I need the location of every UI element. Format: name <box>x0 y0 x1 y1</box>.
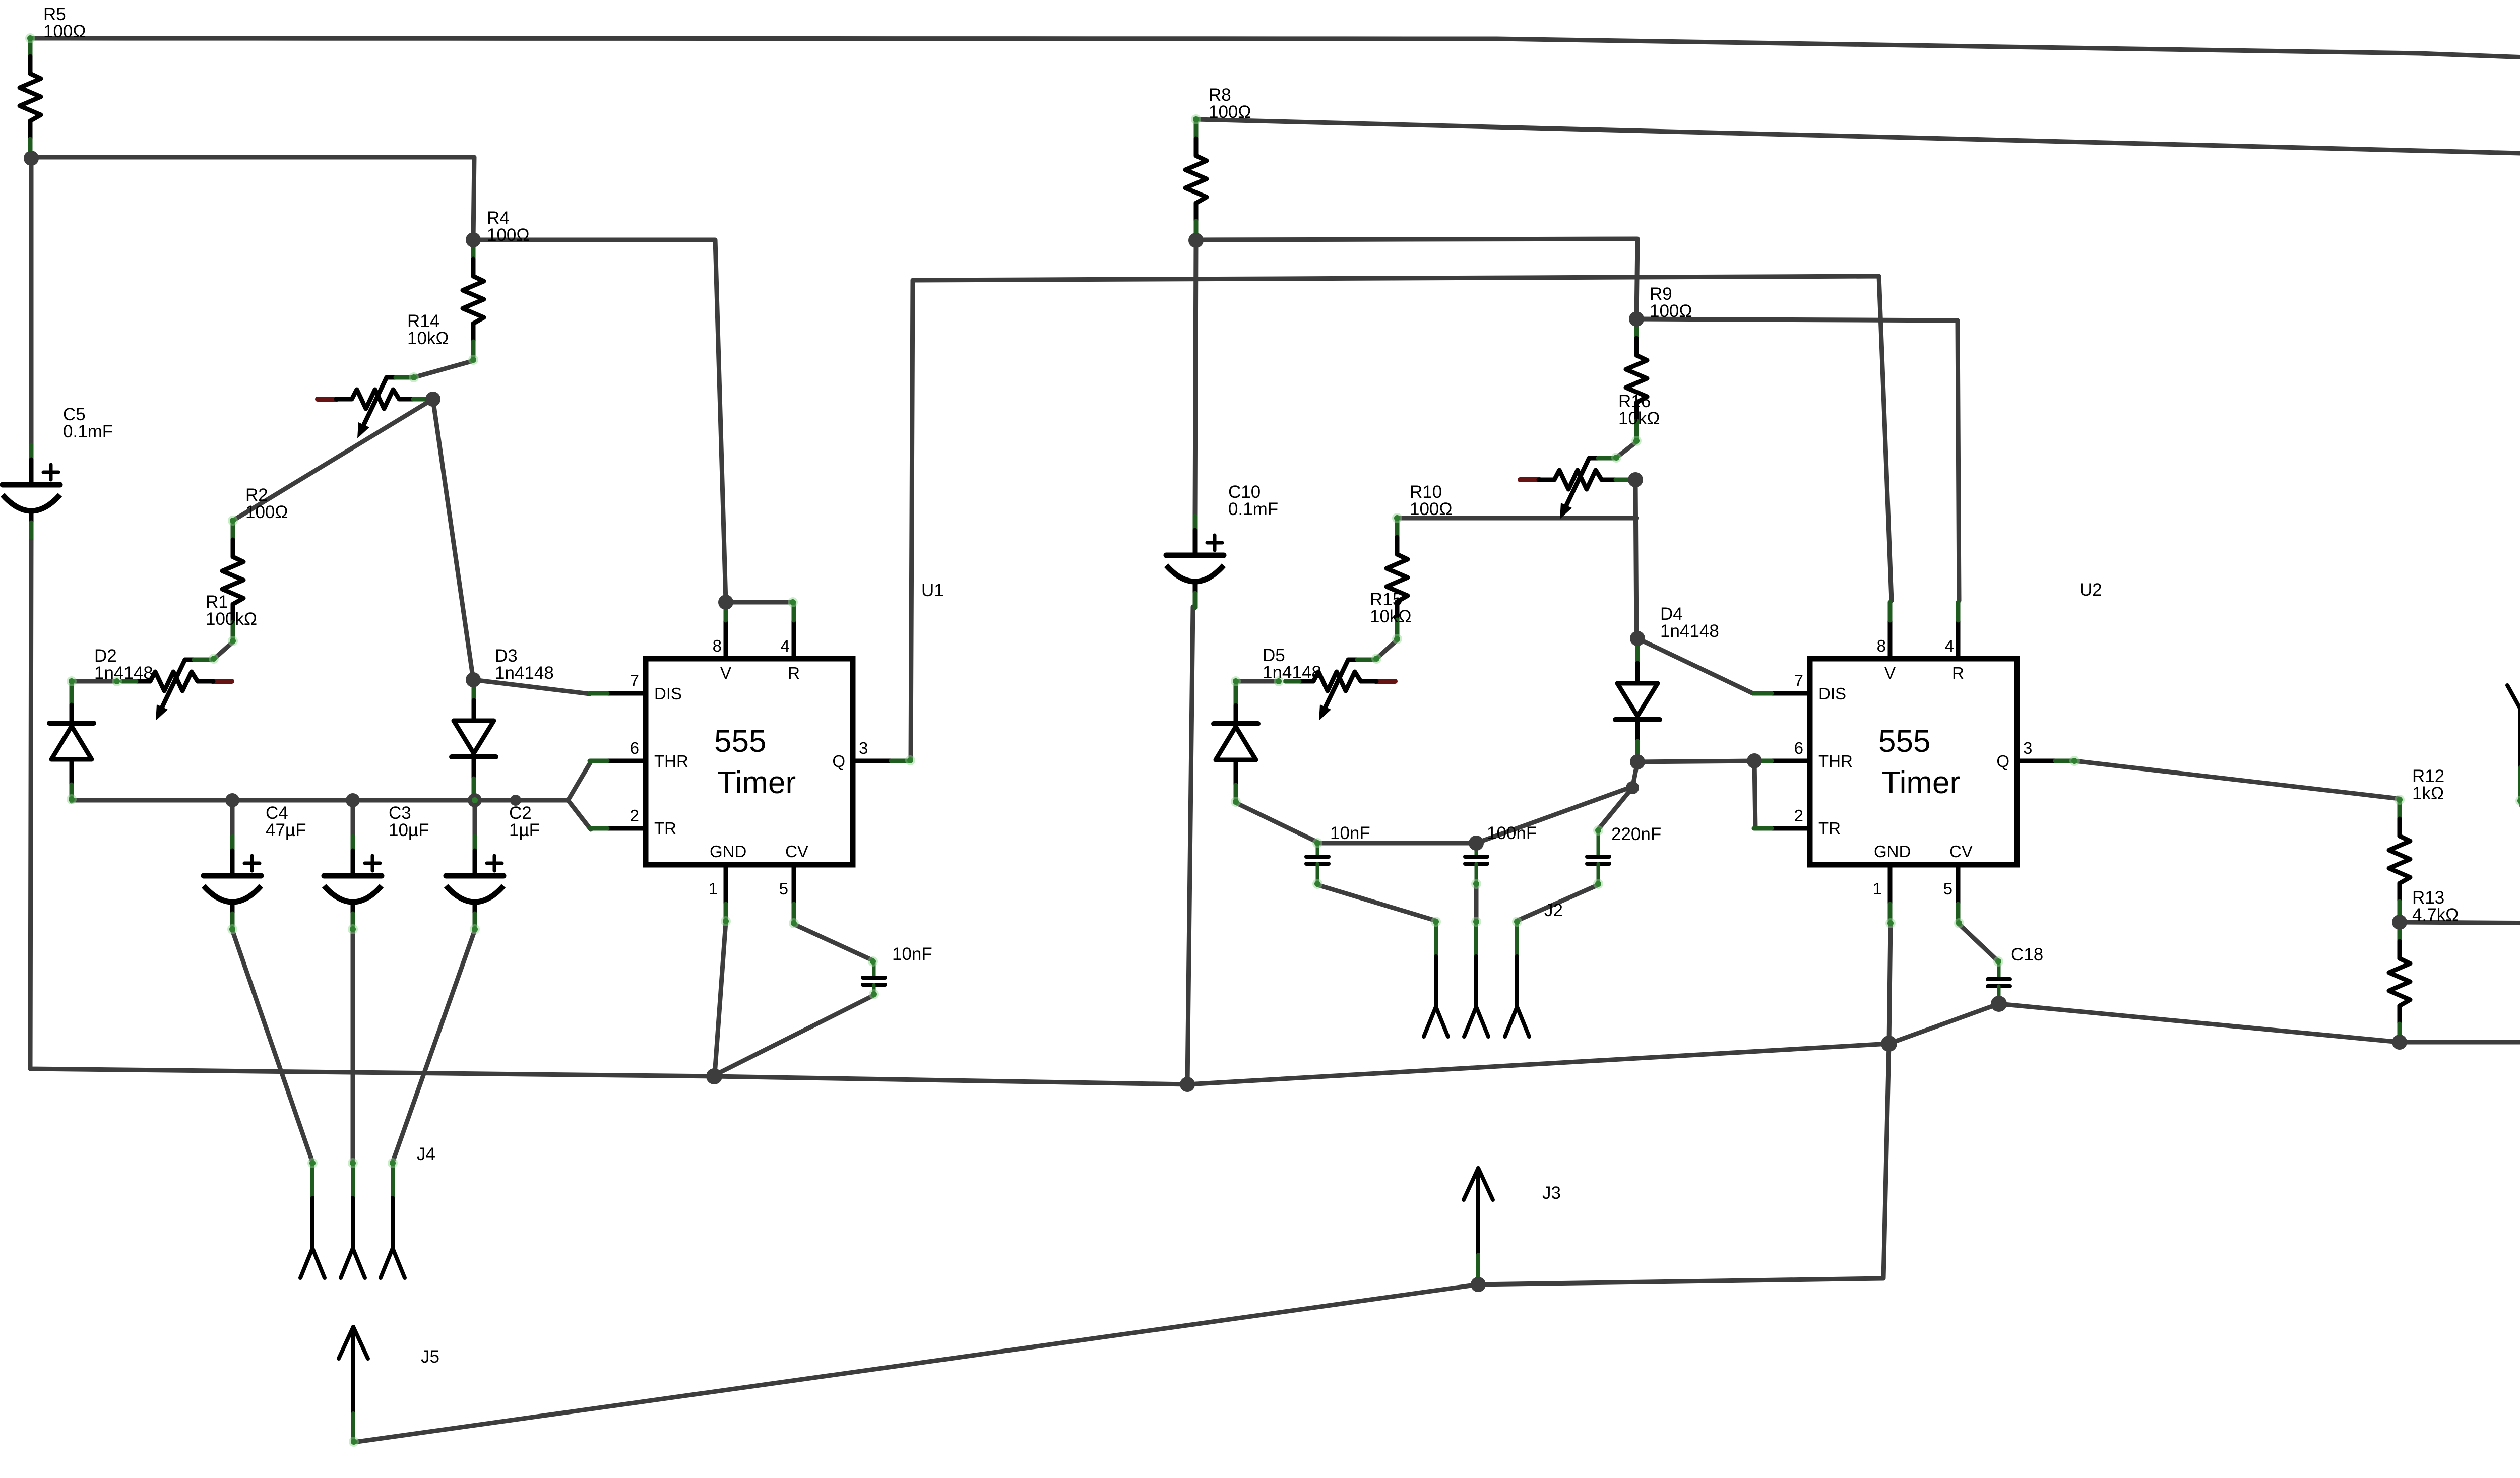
svg-text:1µF: 1µF <box>509 820 540 840</box>
svg-text:6: 6 <box>1794 739 1803 757</box>
svg-text:TR: TR <box>1818 819 1841 838</box>
svg-text:Q: Q <box>1996 752 2009 770</box>
svg-text:3: 3 <box>859 739 868 757</box>
svg-text:4: 4 <box>1945 636 1954 655</box>
svg-text:3: 3 <box>2023 739 2032 757</box>
svg-text:0.1mF: 0.1mF <box>63 422 113 441</box>
svg-text:CV: CV <box>1949 842 1973 861</box>
svg-text:2: 2 <box>630 806 639 825</box>
svg-text:8: 8 <box>713 636 722 655</box>
svg-text:1n4148: 1n4148 <box>495 663 554 683</box>
svg-text:100Ω: 100Ω <box>1410 499 1453 519</box>
svg-text:V: V <box>1884 664 1896 682</box>
svg-text:J4: J4 <box>417 1144 435 1164</box>
svg-text:10kΩ: 10kΩ <box>407 329 449 348</box>
svg-text:100kΩ: 100kΩ <box>206 609 257 629</box>
svg-text:4.7kΩ: 4.7kΩ <box>2412 905 2459 925</box>
svg-text:Timer: Timer <box>717 765 796 800</box>
svg-text:DIS: DIS <box>1818 684 1846 703</box>
svg-text:1kΩ: 1kΩ <box>2412 784 2444 803</box>
svg-text:THR: THR <box>654 752 688 770</box>
svg-text:5: 5 <box>1943 879 1952 898</box>
svg-text:10kΩ: 10kΩ <box>1618 409 1660 428</box>
svg-text:GND: GND <box>710 842 746 861</box>
svg-text:10nF: 10nF <box>1330 823 1370 843</box>
svg-text:10µF: 10µF <box>389 820 429 840</box>
svg-text:DIS: DIS <box>654 684 682 703</box>
svg-text:TR: TR <box>654 819 676 838</box>
svg-text:10nF: 10nF <box>892 944 932 964</box>
svg-text:0.1mF: 0.1mF <box>1228 499 1278 519</box>
svg-text:J5: J5 <box>421 1347 439 1367</box>
svg-text:6: 6 <box>630 739 639 757</box>
svg-text:CV: CV <box>785 842 808 861</box>
svg-text:GND: GND <box>1874 842 1911 861</box>
svg-text:10kΩ: 10kΩ <box>1370 607 1412 626</box>
svg-text:Timer: Timer <box>1881 765 1960 800</box>
svg-text:8: 8 <box>1877 636 1886 655</box>
svg-text:J2: J2 <box>1544 901 1563 920</box>
svg-text:1n4148: 1n4148 <box>1263 663 1321 682</box>
svg-text:100Ω: 100Ω <box>1650 301 1692 321</box>
svg-text:100Ω: 100Ω <box>43 22 86 41</box>
svg-text:47µF: 47µF <box>266 820 306 840</box>
svg-text:R: R <box>1952 664 1964 682</box>
svg-text:J3: J3 <box>1542 1183 1561 1203</box>
svg-text:555: 555 <box>1878 724 1930 759</box>
svg-text:V: V <box>720 664 731 682</box>
svg-text:1n4148: 1n4148 <box>1660 621 1719 641</box>
svg-text:7: 7 <box>630 671 639 690</box>
svg-text:Q: Q <box>832 752 845 770</box>
svg-text:1: 1 <box>1873 879 1882 898</box>
svg-text:100Ω: 100Ω <box>487 225 530 245</box>
svg-text:C18: C18 <box>2011 945 2043 965</box>
svg-text:220nF: 220nF <box>1611 824 1661 844</box>
svg-text:555: 555 <box>714 724 766 759</box>
svg-text:U1: U1 <box>921 581 944 600</box>
svg-text:THR: THR <box>1818 752 1853 770</box>
svg-text:5: 5 <box>779 879 788 898</box>
svg-text:100Ω: 100Ω <box>1209 102 1251 122</box>
svg-text:U2: U2 <box>2080 580 2102 600</box>
svg-text:4: 4 <box>781 636 790 655</box>
svg-text:7: 7 <box>1794 671 1803 690</box>
svg-text:1n4148: 1n4148 <box>94 663 153 683</box>
svg-text:100Ω: 100Ω <box>245 502 288 522</box>
svg-text:1: 1 <box>709 879 718 898</box>
svg-text:100nF: 100nF <box>1487 823 1537 843</box>
svg-text:2: 2 <box>1794 806 1803 825</box>
svg-text:R: R <box>788 664 800 682</box>
